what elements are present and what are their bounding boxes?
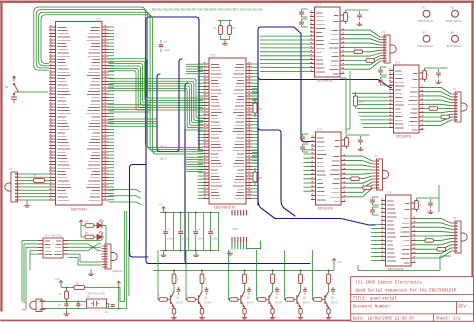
svg-text:Date: 18/09/2005 21:58:07: Date: 18/09/2005 21:58:07 [353,317,415,322]
svg-text:SUBD9A1: SUBD9A1 [112,270,123,273]
svg-text:CRYSTALHC49U: CRYSTALHC49U [87,293,106,296]
wires bus fan to IC5 left [304,150,312,191]
wires IC7 left routing [22,241,38,309]
svg-text:R5: R5 [85,232,89,235]
wires UART1 to UART3 verticals [340,71,350,134]
svg-text:100n: 100n [167,238,174,241]
connector CN-IC4 [455,92,461,122]
svg-text:C7: C7 [81,304,85,307]
resistor R2 top pullup [229,21,231,40]
resistor IC6 top [416,198,418,212]
IC7 left pins [38,241,43,255]
IC IC1 body EB675001DIP module [56,22,103,206]
IC IC3 UART 16C550 [315,7,341,77]
caps cluster top rail [160,211,219,213]
svg-text:C3: C3 [182,229,186,232]
svg-text:X1: X1 [9,168,13,171]
svg-text:Document Number:: Document Number: [353,305,392,310]
wires IC6 to connector [416,218,452,258]
capacitor IC6 top [417,198,440,208]
wires IC3 to connector [345,30,381,69]
resistor R7 osc [65,291,69,299]
transistor cell Q5 [300,271,302,316]
svg-text:Quad Serial expansion for the: Quad Serial expansion for the EB675001DI… [356,288,457,293]
ground IC6 top [428,210,433,214]
wires bus fan to IC6 left [371,225,381,261]
resistor IC4 top [424,68,426,82]
supply +5V osc right [117,281,120,286]
ground caps cluster right [195,251,197,254]
capacitor C8 osc [112,304,114,310]
LED D2 [94,236,97,238]
svg-text:IC1: IC1 [96,18,102,22]
svg-text:100n: 100n [212,238,219,241]
resistor R8 right of IC2 [254,99,256,117]
resistor array IC5 inline b [363,186,372,190]
bus branch to UART2 [258,77,392,88]
bus U-turn loop [157,59,182,152]
svg-text:C2: C2 [167,229,171,232]
svg-text:C8: C8 [105,311,109,314]
bus vertical x185 to rail [185,83,310,264]
page frame right band [471,1,473,278]
bus bridge over IC2 to UART3 [258,27,313,205]
transistor cell Q6 [328,271,330,316]
supply +5V osc left [59,281,62,286]
svg-text:DB_S: DB_S [160,158,167,161]
resistor array IC5 inline a [351,177,360,181]
capacitor C4 100n [195,213,197,251]
IC7 right pins [63,241,68,255]
svg-text:MOUNTHOLE4: MOUNTHOLE4 [446,45,462,48]
IC1 right pin names [87,27,101,200]
svg-text:C1: C1 [164,41,168,44]
svg-text:EB675001DIP: EB675001DIP [214,206,235,210]
svg-text:R6: R6 [76,283,80,286]
resistor array IC3 inline a [354,50,363,54]
svg-text:IC2: IC2 [210,54,216,58]
IC1 left pin numbers [50,26,52,199]
svg-text:EB675001: EB675001 [71,209,87,213]
resistor R10 between UARTs [355,92,357,109]
svg-text:100n: 100n [164,49,171,52]
transistor cell Q1 [173,271,175,316]
page frame top band [0,1,474,3]
wire stubs bus to IC2 lower left pins [186,157,203,171]
svg-text:X6: X6 [453,217,457,220]
svg-text:BC547: BC547 [275,302,283,305]
svg-text:100n: 100n [197,238,204,241]
IC1 right pins 56-110 [102,27,109,200]
svg-text:R1: R1 [213,27,217,30]
capacitor C5 100n [210,213,212,251]
wire bundle stack B IC1 to IC2 [109,79,204,130]
svg-text:16C550IN: 16C550IN [388,268,403,272]
svg-text:TITLE: quad-serial: TITLE: quad-serial [353,297,398,302]
capacitor C1 near top [160,40,162,52]
bus branch vertical x281 [258,127,281,199]
svg-text:R8: R8 [259,108,263,111]
resistor array IC4 inline a [429,107,438,111]
ground IC4 top [436,80,441,84]
resistor IC5 top [346,135,348,149]
resistor R9 right of IC2 [254,168,256,186]
svg-text:X3: X3 [382,31,386,34]
svg-text:M4: M4 [451,32,455,35]
resistor array IC6 inline a [425,239,434,243]
resistor R3 inline [34,179,45,183]
IC IC5 UART 16C550 [316,132,342,205]
IC IC4 UART 16C550 [394,65,420,133]
IC1 left pins 1-55 [49,27,56,200]
IC2 right pin names [233,64,245,198]
svg-text:R10: R10 [359,101,364,104]
svg-text:PD0/PD1/PD2/PD3/PD4/PD5/PD6/PD: PD0/PD1/PD2/PD3/PD4/PD5/PD6/PD7/IOR/IOW/… [152,9,263,12]
wire stubs IC2 right to bus [252,86,257,163]
wire bundle stack A IC1 to IC2 [109,59,204,110]
svg-text:100n: 100n [182,238,189,241]
capacitor IC3 left a [302,9,308,17]
ground IC3 top [357,22,362,26]
wires IC7 to DB9 with crossover [68,241,101,266]
resistor R5 LED [85,235,94,239]
ground JP1 [227,252,232,256]
junction dots transistor rail [174,270,329,272]
svg-text:+5V: +5V [158,204,163,207]
LED D1 [94,225,97,227]
wires X1 to IC1 [22,174,50,200]
wire osc bottom rows [42,302,119,309]
switch S1 reset [13,76,16,81]
svg-text:AB_S: AB_S [160,146,167,149]
wires bus fan to IC3 left [260,36,310,71]
wire osc top [61,285,119,309]
svg-text:GND: GND [22,309,27,312]
connector X3 power [36,299,42,312]
page frame bottom line [0,320,474,322]
svg-text:IC5: IC5 [317,129,323,132]
svg-text:IC3: IC3 [316,4,322,7]
resistor array IC3 inline b [366,59,375,63]
connector CN-IC5 [377,159,383,190]
capacitor IC6 left a [373,197,379,205]
transistor cell Q3 [244,271,246,316]
capacitor IC6 left b [373,207,379,215]
resistor R4 LED [85,224,94,228]
svg-text:MOUNTHOLE3: MOUNTHOLE3 [418,45,434,48]
wires oscillator vertical drops [118,211,129,309]
title block outer box [351,277,474,322]
capacitor C7 osc [77,302,79,310]
wire top pullup tie [218,21,232,42]
junction dots osc [67,288,119,309]
IC2 right pin numbers [249,63,251,197]
svg-text:C4: C4 [197,229,201,232]
svg-text:BC547: BC547 [303,302,311,305]
wire stubs IC2 left pins [198,64,204,198]
svg-text:+5V: +5V [55,278,60,281]
connector CN-IC6 [455,221,461,253]
ground caps cluster [163,251,165,254]
capacitor IC5 left a [303,134,309,142]
junction dots caps rails [166,213,211,251]
bus top horizontal net [149,16,196,18]
capacitor C3 100n [180,213,182,251]
mounting hole M4 [452,35,459,42]
IC1 left pin names [58,27,72,200]
connector X1 left edge [11,172,18,202]
svg-text:16C550IN: 16C550IN [317,79,332,83]
transistor rail +5V [153,263,334,271]
resistor array IC6 inline b [437,247,446,251]
svg-text:R3: R3 [34,175,38,178]
header JP1 pins top row [232,210,247,216]
title block row lines [351,295,474,322]
svg-text:R2: R2 [232,27,236,30]
ground top pullups [222,42,227,46]
IC2 right pins [246,64,252,198]
caps cluster bottom rail [160,250,219,252]
capacitor C2 100n [165,213,167,251]
wires IC1 lower right bus entries [109,190,142,205]
ground osc [66,309,68,312]
svg-text:(C) 2005 Simtec Electronics: (C) 2005 Simtec Electronics [356,281,423,286]
IC1 right pin numbers [105,26,107,199]
resistor R6 1M [74,286,85,290]
wires IC5 to connector [346,156,373,197]
svg-text:REV:: REV: [458,306,468,310]
capacitor IC4 left b [381,77,387,85]
svg-text:MOUNTHOLE1: MOUNTHOLE1 [418,20,434,23]
svg-text:C5: C5 [212,229,216,232]
wires bus fan to IC4 left [352,93,389,127]
wire stubs IC2 right pins [252,64,258,198]
svg-text:X5: X5 [375,155,379,158]
capacitor IC3 left b [302,19,308,27]
svg-text:R9: R9 [259,177,263,180]
svg-text:+5V: +5V [337,261,342,264]
svg-text:BC547: BC547 [331,302,339,305]
bus stub from x281 to UART4 fan [281,199,295,216]
svg-text:IC7 MAX3221: IC7 MAX3221 [45,235,63,238]
wires to bus entries [109,64,204,126]
svg-text:M2: M2 [451,7,455,10]
header JP1 pins bottom row [232,237,247,243]
svg-text:BC547: BC547 [247,302,255,305]
IC IC2 body bus interface [209,58,246,204]
svg-text:16C550IN: 16C550IN [396,135,411,139]
svg-text:S1: S1 [5,86,9,89]
mounting hole M1 [423,10,430,17]
transistor cell Q4 [272,271,274,316]
capacitor IC4 top [425,68,448,78]
svg-text:M3: M3 [423,32,427,35]
svg-text:MOUNTHOLE2: MOUNTHOLE2 [446,20,462,23]
wire stubs IC1 right pins [109,27,115,200]
capacitor IC5 left b [303,144,309,152]
wire vertical right of IC5 [438,185,440,212]
ground X2 [90,269,92,272]
connector X2 SUBD9 female [105,244,111,269]
svg-text:IC4: IC4 [395,62,401,65]
capacitor IC5 top [347,135,370,145]
svg-text:X4: X4 [453,88,457,91]
supply +5V caps cluster [162,207,165,212]
bus branch to UART4 [258,199,375,225]
bus left vertical to bottom rail [146,17,310,264]
svg-text:16C550IN: 16C550IN [318,207,333,211]
svg-text:IC6: IC6 [387,192,393,195]
IC IC6 UART 16C550 [386,195,412,266]
capacitor IC3 top [346,10,369,20]
resistor IC3 top [345,10,347,24]
mounting hole M3 [423,35,430,42]
mounting hole M2 [452,10,459,17]
resistor array IC4 inline b [441,115,450,119]
wire bundle top loop IC1 to IC2 [34,7,203,154]
wires IC4 to connector [424,87,452,125]
IC2 left pins [203,64,209,198]
wire loop under IC6 [358,256,451,271]
svg-text:BC547: BC547 [205,302,213,305]
IC7 pin names [45,241,53,255]
svg-text:R4: R4 [85,221,89,224]
bus right vertical from top net [196,17,199,150]
svg-text:Sheet: 1/1: Sheet: 1/1 [436,317,461,322]
svg-text:R7: R7 [59,293,63,296]
supply +5V LED rail [79,220,82,225]
wire S1 to IC1 [14,91,48,93]
svg-text:Q5: Q5 [87,296,91,299]
svg-text:M1: M1 [423,7,427,10]
page frame left band [0,1,2,312]
resistor R1 top pullup [220,21,222,40]
IC IC7 MAX232 body [43,238,63,258]
capacitor IC4 left a [381,67,387,75]
connector CN-IC3 [384,35,390,63]
transistor cell Q2 [201,271,203,316]
svg-text:+5V: +5V [22,302,27,305]
svg-text:BC547: BC547 [177,302,185,305]
ground IC5 top [358,147,363,151]
bus second left vertical [130,165,149,258]
svg-text:LEDS: LEDS [232,228,239,231]
IC2 left pin names [211,64,223,198]
ground X1 area [26,201,28,204]
wires JP1 header drops [232,241,261,250]
wires X3 [43,302,46,309]
capacitor C6 osc [66,302,68,310]
crystal Q5 HC49U [87,299,107,308]
svg-text:C6: C6 [58,304,62,307]
IC2 left pin numbers [204,63,206,197]
